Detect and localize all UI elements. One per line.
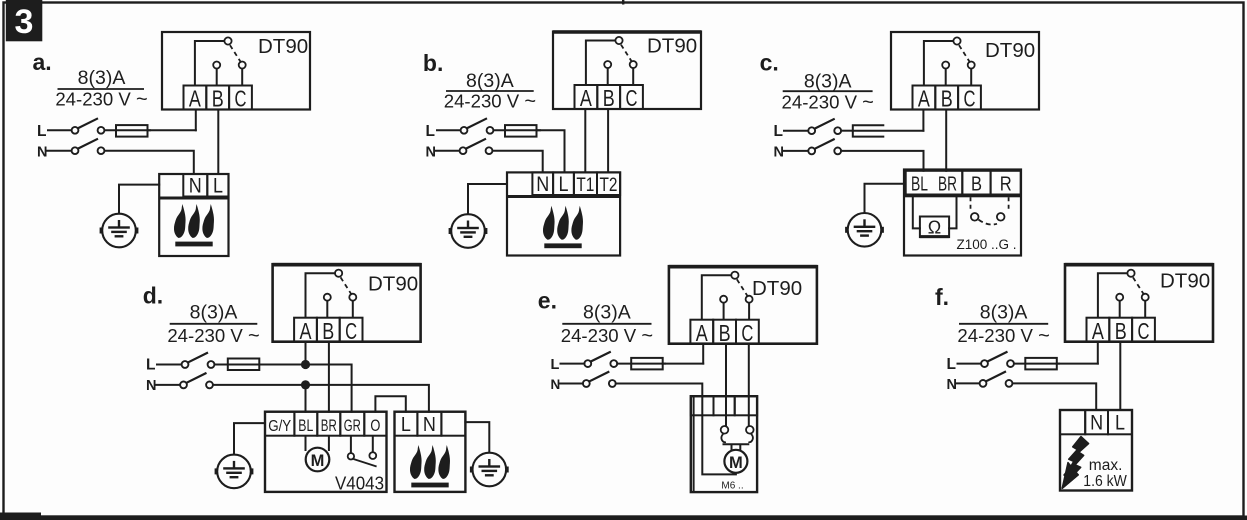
wire A down to L (a) [195,110,197,131]
thermostat DT90 (a) [162,32,310,110]
valve contact under B (e) [721,415,729,442]
svg-text:C: C [235,86,247,112]
contact over C (d) [349,294,356,318]
thermostat DT90 (d) [273,264,421,342]
svg-text:DT90: DT90 [1160,270,1210,293]
wire N to boiler (a) [105,151,194,174]
wire N inside valve to motor (e) [702,396,736,474]
isolator switch contact (N (e)) [583,372,616,387]
wire B down to BR (c) [945,110,947,171]
svg-text:b.: b. [423,50,443,76]
wire L lead (a) [48,129,72,131]
svg-text:L: L [559,173,569,196]
svg-text:L: L [213,174,223,197]
wire L circle2-fuse (f) [1014,363,1059,365]
svg-text:8(3)A: 8(3)A [466,70,514,92]
rating label 8(3)A / 24-230V (c) [782,70,874,113]
contact over B (c) [942,62,949,86]
terminal strip A B C (e) [690,320,758,346]
svg-text:V4043: V4043 [335,474,384,494]
contact over B (e) [720,296,727,320]
svg-text:C: C [964,86,976,112]
svg-text:BL: BL [911,173,928,195]
switch common contact from A (a) [195,37,232,85]
wire fuse to A (c) [853,130,924,132]
contact over B (b) [604,61,611,85]
dashed contact B-R (c) [971,197,1009,224]
switch blade (dashed) (a) [230,45,242,64]
isolator switch contact (N (c)) [808,139,841,154]
svg-text:L: L [551,357,560,373]
wire earth wire (a) [119,185,159,213]
wire B down to load L (f) [1119,342,1121,410]
wire fuse to A (f) [1057,363,1098,365]
svg-text:8(3)A: 8(3)A [583,302,631,324]
svg-text:A: A [580,85,592,111]
resistor / bridge box with ohm symbol (c) [920,217,949,239]
svg-text:8(3)A: 8(3)A [78,67,126,89]
svg-text:B: B [322,318,334,344]
svg-text:max.: max. [1089,457,1123,474]
zone valve box M6 (e) [691,396,757,492]
svg-text:24-230 V ~: 24-230 V ~ [167,325,259,347]
heating-load flames symbol (b) [543,206,583,248]
terminal strip A B C (b) [575,85,643,111]
fuse (a) [116,125,148,137]
wire L lead (c) [784,130,808,132]
svg-text:24-230 V ~: 24-230 V ~ [55,89,147,111]
terminal strip A B C (f) [1087,318,1155,344]
wire N lead (c) [783,150,808,152]
valve contact under C (e) [746,415,754,442]
fuse (f) [1025,358,1057,370]
svg-text:BL: BL [298,417,313,435]
svg-text:L: L [37,123,46,140]
fuse (d) [228,359,259,371]
svg-text:O: O [370,417,380,435]
thermostat DT90 (c) [891,32,1039,110]
earth/ground symbol (d left) [215,455,254,489]
earth/ground symbol (d right) [470,453,509,487]
svg-text:N: N [146,378,156,394]
wire O to boiler L (d) [375,396,405,411]
rating label 8(3)A / 24-230V (a) [55,67,147,111]
wire A down to L junction (d) [305,342,307,365]
thermostat DT90 (e) [669,266,817,344]
wire L lead (f) [958,363,982,365]
svg-text:L: L [146,357,155,374]
svg-text:DT90: DT90 [647,34,697,57]
earth/ground symbol (a) [100,214,139,248]
receiver box Z100 (c) [904,170,1021,256]
svg-text:L: L [947,356,956,373]
svg-text:N: N [1090,412,1103,435]
isolator switch contact (L (c)) [808,119,841,134]
svg-text:C: C [741,320,753,346]
svg-text:GR: GR [344,417,361,435]
svg-text:Z100 ..G .: Z100 ..G . [957,237,1017,252]
boiler / heating load box (a) [159,174,228,256]
fuse (c) [853,125,885,136]
svg-text:N: N [423,414,436,436]
thermostat DT90 (f) [1065,264,1213,342]
wire BL to resistor (c) [913,197,920,228]
fuse (b) [505,125,537,137]
wire N lead (f) [957,382,980,384]
isolator switch contact (N (a)) [72,139,105,154]
wire earth wire left (d) [234,423,265,453]
wire N to boiler (b) [493,151,543,173]
rating label 8(3)A / 24-230V (d) [167,302,259,347]
svg-text:24-230 V ~: 24-230 V ~ [561,325,653,347]
thermostat DT90 (b) [553,32,701,110]
wire L lead (b) [437,129,461,131]
valve end switch GR-O (d) [348,436,377,467]
switch common contact from A (c) [924,37,961,85]
svg-text:DT90: DT90 [258,35,308,58]
wire L circle2-fuse (c) [841,130,853,132]
wire N lead (d) [156,384,180,386]
svg-text:L: L [401,414,411,436]
isolator switch contact (N (b)) [460,139,493,154]
wire N lead (e) [560,383,583,385]
heating-load flames symbol (d) [410,445,450,487]
terminal strip A B C (a) [184,86,252,112]
isolator switch contact (L (e)) [584,352,617,367]
svg-text:Ω: Ω [928,218,941,238]
svg-text:f.: f. [935,284,949,310]
svg-text:A: A [300,318,312,344]
svg-text:R: R [1000,173,1012,195]
lightning bolt symbol (f) [1062,437,1088,489]
svg-text:DT90: DT90 [985,39,1035,62]
wire L lead (d) [157,364,182,366]
electric heater load box max 1.6kW (f) [1060,410,1132,491]
valve motor M (e) [723,444,750,473]
svg-text:A: A [189,86,201,112]
junction dot L/A (d) [301,360,310,369]
wire B down into valve (e) [725,344,727,416]
wire fuse to junction to GR (d) [259,365,351,412]
svg-text:24-230 V ~: 24-230 V ~ [444,91,536,113]
wire N to valve (e) [616,384,703,397]
switch blade (dashed) (e) [737,279,749,298]
wire A down to L (e) [702,344,704,364]
svg-text:N: N [37,145,47,161]
svg-text:M: M [729,454,743,472]
figure number 3 [6,0,43,41]
svg-text:M6 ..: M6 .. [721,481,743,492]
isolator switch contact (N (f)) [980,371,1013,386]
svg-text:C: C [1138,318,1150,344]
isolator switch contact (L (d)) [182,353,215,368]
svg-text:3: 3 [15,3,34,41]
motorised valve box V4043 (d) [265,412,387,492]
contact over B (f) [1116,294,1123,318]
valve motor M (d) [306,436,330,472]
svg-text:a.: a. [33,49,52,75]
switch common contact from A (d) [306,270,343,318]
heating-load flames symbol (a) [174,204,214,246]
svg-text:A: A [918,86,930,112]
svg-text:BR: BR [321,417,337,435]
junction dot N/BL (d) [301,380,310,389]
rating label 8(3)A / 24-230V (e) [561,302,653,347]
wire L lead (e) [561,363,585,365]
wire BR to resistor (c) [949,197,956,228]
contact over B (d) [324,294,331,318]
boiler / heating load box (b) [507,172,620,255]
svg-text:DT90: DT90 [368,273,418,296]
isolator switch contact (L (f)) [981,352,1014,367]
switch blade (dashed) (b) [621,45,633,64]
contact over C (f) [1142,294,1149,318]
svg-text:B: B [212,86,224,112]
svg-text:c.: c. [760,50,779,76]
svg-text:L: L [774,123,783,140]
earth/ground symbol (c) [845,213,884,247]
wire fuse to boiler L (b) [537,130,565,172]
contact over B (a) [213,62,220,86]
wire N to boiler N (d) [213,385,429,412]
svg-text:BR: BR [938,173,957,195]
rating label 8(3)A / 24-230V (b) [444,70,536,113]
switch blade (dashed) (f) [1133,277,1145,296]
wire N lead (a) [47,150,72,152]
isolator switch contact (N (d)) [180,373,213,388]
svg-text:B: B [719,320,731,346]
wire N to load (f) [1013,383,1097,410]
svg-text:N: N [536,173,549,196]
wire B down to boiler L (a) [217,110,219,175]
svg-text:24-230 V ~: 24-230 V ~ [782,92,874,114]
boiler / heating load box (d) [395,412,466,492]
svg-text:M: M [311,452,325,470]
wire L circle2-fuse (b) [494,129,541,131]
contact over C (a) [239,62,246,86]
svg-text:B: B [603,85,615,111]
terminal strip A B C (d) [294,318,362,344]
wire earth wire right (d) [465,422,489,452]
svg-text:C: C [345,318,357,344]
svg-text:N: N [189,174,202,197]
svg-text:T2: T2 [600,175,618,196]
switch blade (dashed) (c) [959,45,971,64]
wire fuse to A (e) [663,363,704,365]
wire earth wire (b) [468,184,507,213]
svg-text:L: L [1115,412,1125,435]
wire C down into valve (e) [748,344,750,416]
isolator switch contact (L (a)) [72,118,105,133]
contact over C (c) [968,62,975,86]
wire A down to L (c) [922,110,924,131]
svg-text:B: B [1115,318,1127,344]
svg-text:A: A [696,320,708,346]
wire L circle2-fuse (e) [617,363,665,365]
wire A down to L (f) [1097,342,1099,364]
wire N to BL (c) [841,151,923,171]
wire A to T1 (b) [584,110,586,173]
svg-text:N: N [426,145,436,161]
wire B down to BR (d) [328,342,330,412]
svg-text:e.: e. [538,288,557,314]
svg-text:8(3)A: 8(3)A [190,302,238,324]
switch common contact from A (e) [702,272,739,320]
contact over C (e) [746,296,753,320]
svg-text:8(3)A: 8(3)A [980,302,1028,324]
svg-text:24-230 V ~: 24-230 V ~ [957,325,1049,347]
contact over C (b) [630,61,637,85]
svg-text:N: N [774,145,784,161]
wire L circle2-fuse (d) [215,364,263,366]
wire L circle2-fuse (a) [105,129,151,131]
svg-text:N: N [947,377,957,393]
wire fuse to A (a) [148,129,196,131]
terminal strip A B C (c) [913,86,981,112]
wire B to T2 (b) [607,110,609,173]
earth/ground symbol (b) [449,214,488,248]
switch blade (dashed) (d) [341,277,353,296]
svg-text:T1: T1 [576,175,594,196]
svg-text:B: B [971,173,982,195]
svg-text:DT90: DT90 [752,277,802,300]
svg-text:L: L [426,123,435,140]
fuse (e) [631,358,663,370]
svg-text:G/Y: G/Y [268,418,291,435]
svg-text:C: C [626,85,638,111]
switch common contact from A (b) [586,37,623,85]
svg-text:B: B [941,86,953,112]
svg-text:8(3)A: 8(3)A [804,70,852,92]
switch common contact from A (f) [1098,270,1135,318]
svg-text:d.: d. [143,282,163,308]
wire earth wire (c) [865,184,905,213]
wire N lead (b) [436,150,460,152]
svg-text:1.6 kW: 1.6 kW [1083,473,1127,490]
svg-text:A: A [1092,318,1104,344]
isolator switch contact (L (b)) [461,118,494,133]
rating label 8(3)A / 24-230V (f) [957,302,1049,347]
wire junction down to BL (d) [305,385,307,412]
